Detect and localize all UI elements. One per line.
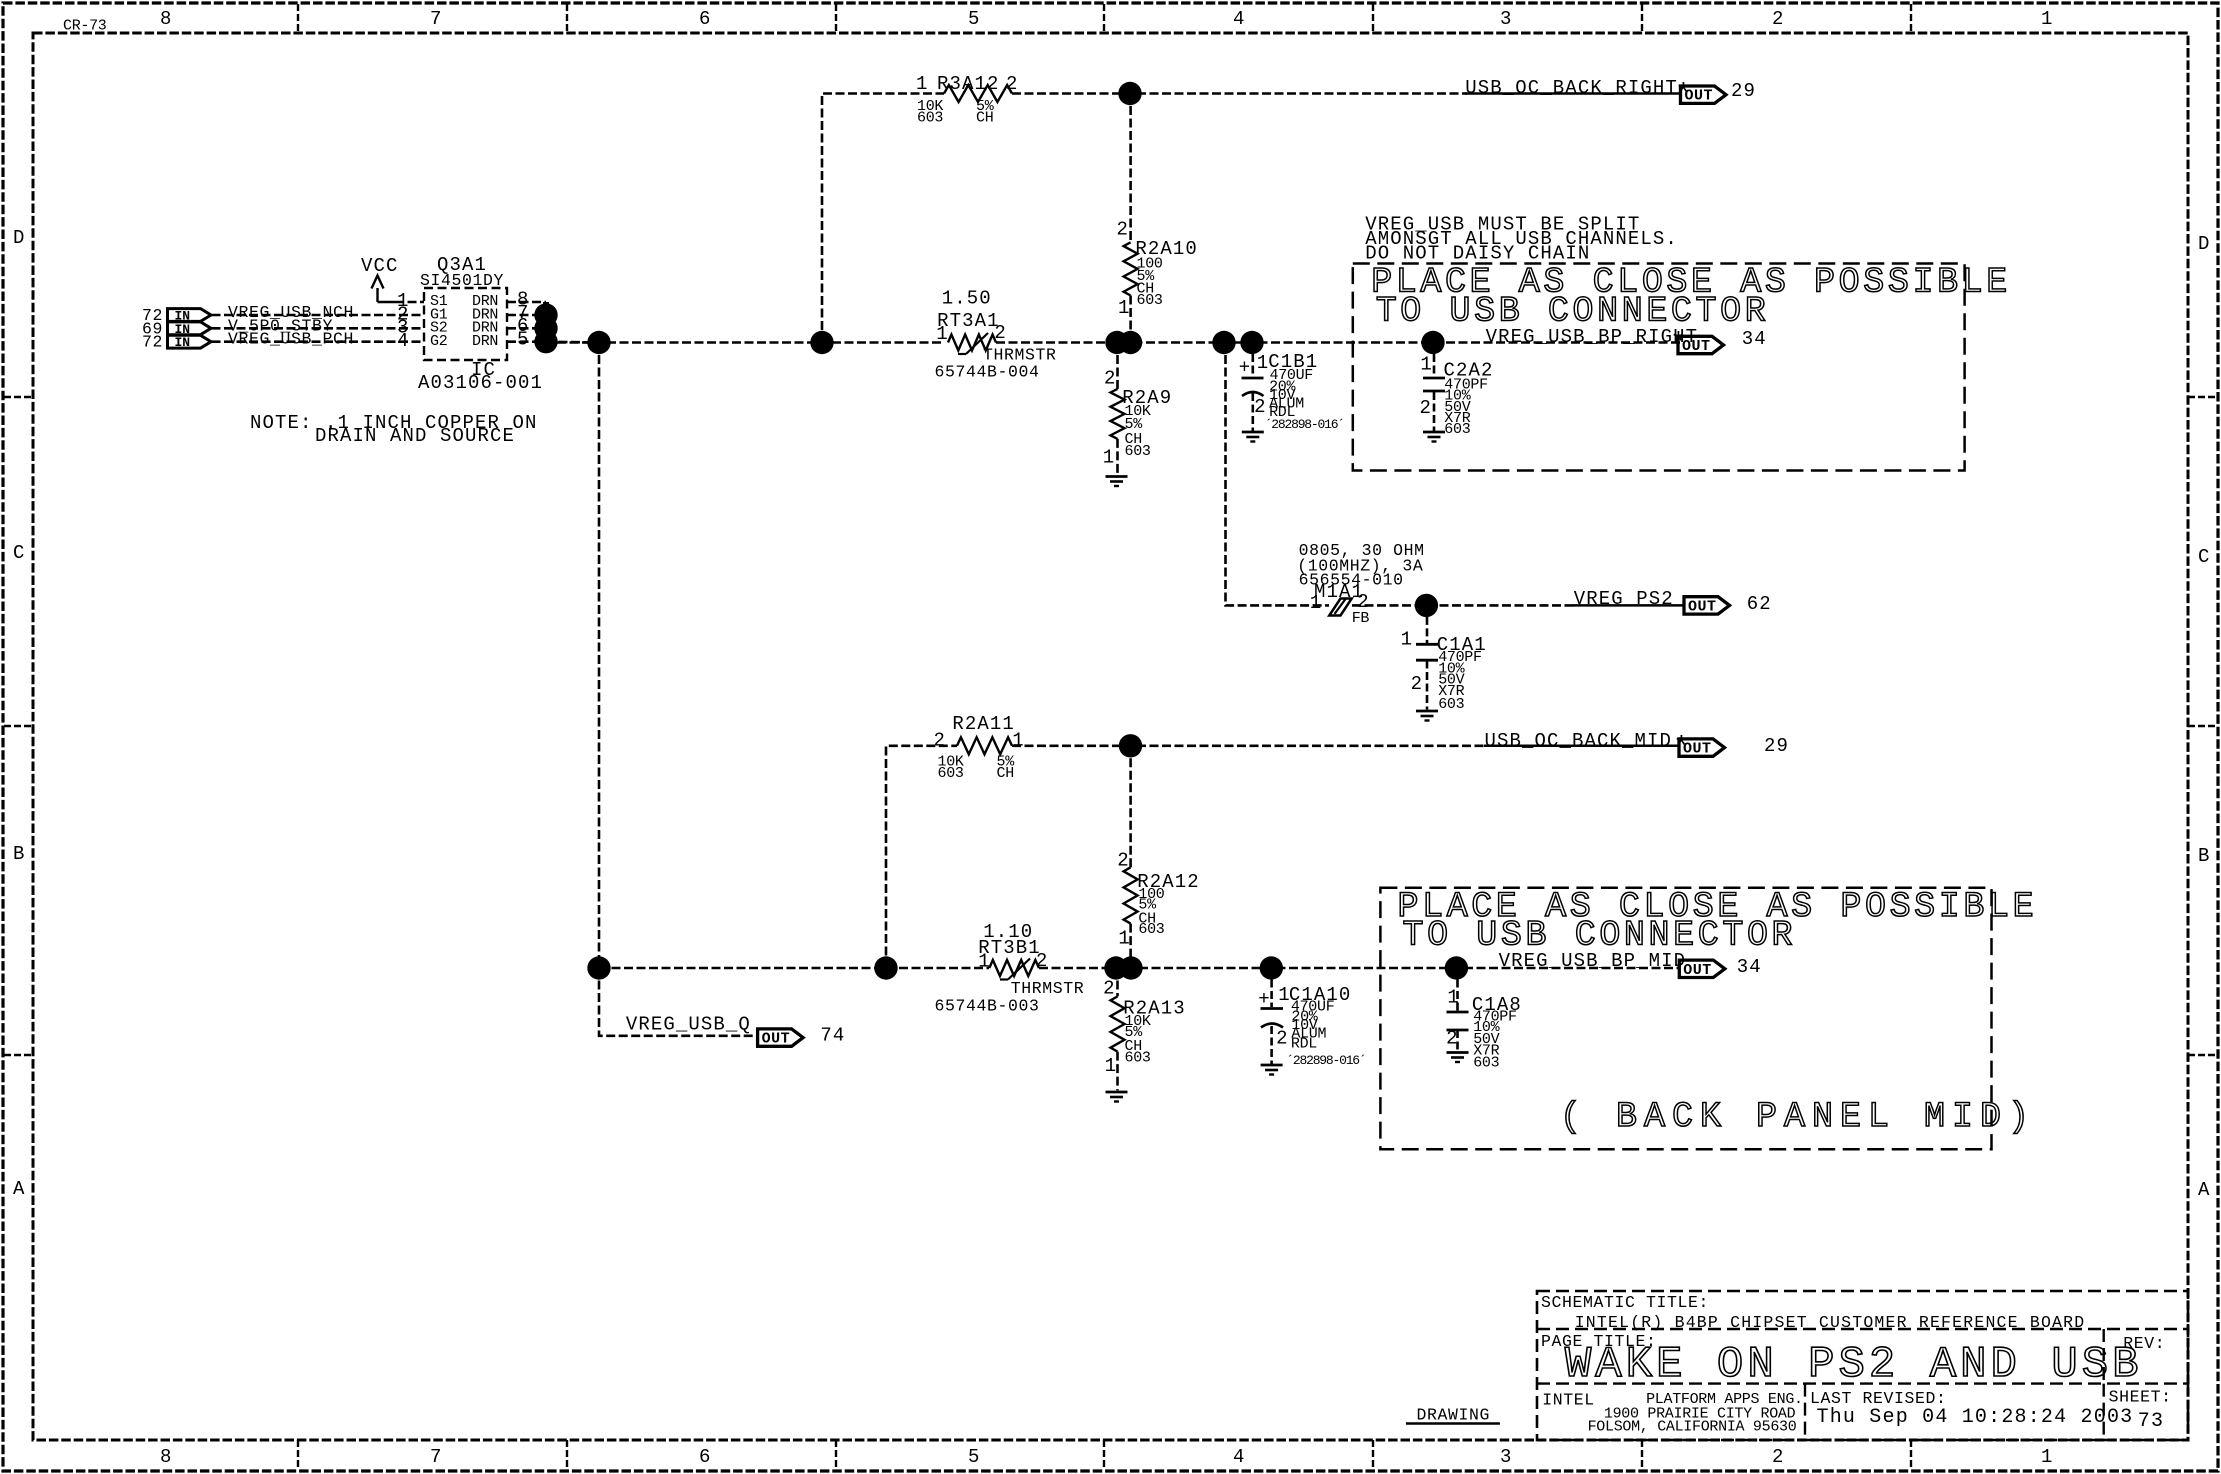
svg-text:65744B-004: 65744B-004 — [935, 363, 1040, 382]
node junction C1A10 at (1271.3,968) — [1260, 956, 1283, 979]
node junction R2A13 at (1116,968) — [1104, 956, 1127, 979]
node junction C1A8 at (1456.4,968) — [1445, 956, 1468, 979]
svg-text:1: 1 — [1447, 986, 1460, 1008]
svg-text:1: 1 — [1012, 730, 1025, 752]
ground below C1A8 — [1447, 1051, 1469, 1054]
wire C1A8 stubs — [1456, 968, 1459, 1011]
svg-text:WAKE ON PS2 AND USB: WAKE ON PS2 AND USB — [1565, 1340, 2143, 1390]
svg-text:2: 2 — [1772, 1446, 1785, 1468]
svg-text:1: 1 — [1105, 1055, 1118, 1077]
svg-text:603: 603 — [917, 110, 943, 127]
svg-text:+: + — [1258, 988, 1271, 1010]
svg-text:2: 2 — [1006, 73, 1019, 95]
svg-text:OUT: OUT — [762, 1031, 791, 1048]
svg-text:5: 5 — [517, 329, 530, 351]
ground below C1A1 — [1416, 710, 1438, 713]
svg-text:INTEL: INTEL — [1542, 1391, 1595, 1410]
svg-text:OUT: OUT — [1688, 598, 1717, 615]
wire R2A9 branch below bus — [1116, 343, 1119, 389]
port OUT VREG_USB_BP_RIGHT to page 34 — [1678, 336, 1724, 353]
node junction R2A11/R2A12 at (1130.5,745.8) — [1119, 734, 1142, 757]
svg-text:VREG_USB_PCH: VREG_USB_PCH — [228, 330, 354, 349]
svg-text:´282898-016´: ´282898-016´ — [1286, 1053, 1365, 1068]
svg-text:603: 603 — [1125, 443, 1151, 460]
node junction USB_OC_BACK_MID leg at (886,968) — [874, 956, 897, 979]
svg-text:SCHEMATIC TITLE:: SCHEMATIC TITLE: — [1541, 1293, 1709, 1312]
svg-text:G2: G2 — [430, 333, 447, 350]
svg-text:1: 1 — [2041, 8, 2054, 30]
svg-text:IN: IN — [175, 335, 191, 350]
svg-text:1.50: 1.50 — [942, 288, 992, 310]
port IN V_5P0_STBY from page 69 — [168, 322, 212, 335]
wire underline of VREG_PS2 label (solid) — [1573, 604, 1684, 607]
svg-text:4: 4 — [1233, 8, 1246, 30]
svg-text:29: 29 — [1731, 80, 1756, 102]
svg-text:2: 2 — [1772, 8, 1785, 30]
svg-text:4: 4 — [1233, 1446, 1246, 1468]
port IN VREG_USB_PCH from page 72 — [168, 335, 212, 348]
svg-text:A: A — [13, 1178, 26, 1200]
svg-text:1: 1 — [936, 323, 949, 345]
wire R2A10 branch: dot at R3A12 output down to main bus — [1129, 94, 1132, 243]
svg-text:62: 62 — [1747, 593, 1772, 615]
node junction VREG_PS2 / C1A1 at (1426.4,605.4) — [1415, 594, 1438, 617]
ground below C1A10 — [1261, 1064, 1283, 1067]
svg-text:VREG_USB_Q: VREG_USB_Q — [626, 1014, 751, 1036]
wire underline of USB_OC_BACK_MID label (solid) — [1484, 745, 1679, 748]
placement note box PLACE AS CLOSE AS POSSIBLE TO USB CONNECTOR (right) — [1353, 264, 1965, 471]
svg-text:CH: CH — [997, 765, 1014, 782]
svg-text:1: 1 — [1103, 447, 1116, 469]
wire Q3A1 pin1 to VCC — [395, 301, 424, 304]
svg-text:73: 73 — [2138, 1410, 2164, 1433]
svg-text:OUT: OUT — [1683, 741, 1712, 758]
svg-text:1: 1 — [2041, 1446, 2054, 1468]
svg-text:TO USB CONNECTOR: TO USB CONNECTOR — [1403, 916, 1797, 956]
svg-text:USB_OC_BACK_MID: USB_OC_BACK_MID — [1485, 730, 1673, 752]
svg-text:1: 1 — [1118, 297, 1131, 319]
svg-text:6: 6 — [699, 8, 712, 30]
svg-text:FOLSOM, CALIFORNIA 95630: FOLSOM, CALIFORNIA 95630 — [1588, 1419, 1797, 1436]
svg-text:3: 3 — [1500, 1446, 1513, 1468]
svg-text:OUT: OUT — [1685, 88, 1714, 105]
svg-text:34: 34 — [1737, 956, 1762, 978]
svg-text:603: 603 — [1137, 292, 1163, 309]
node junction R2A9 at (1117,342.5) — [1105, 331, 1128, 354]
svg-text:C: C — [2198, 546, 2211, 568]
node junction R2A10 at (1130.5,342.5) — [1119, 331, 1142, 354]
svg-text:7: 7 — [430, 8, 443, 30]
thermistor RT3A1 1.50 THRMSTR 65744B-004 — [936, 288, 1007, 355]
svg-text:A: A — [2198, 1179, 2211, 1201]
svg-text:SHEET:: SHEET: — [2109, 1388, 2172, 1407]
wire M1A1 branch: vertical x=1225.5 then VREG_PS2 horizontal — [1226, 343, 1330, 606]
ground below R2A9 — [1106, 475, 1128, 478]
svg-text:TO USB CONNECTOR: TO USB CONNECTOR — [1376, 291, 1770, 331]
node junction C2A2 at (1433,342.5) — [1421, 331, 1444, 354]
svg-text:( BACK PANEL MID): ( BACK PANEL MID) — [1560, 1097, 2036, 1137]
svg-text:1: 1 — [978, 951, 991, 973]
svg-text:CH: CH — [976, 110, 993, 127]
svg-text:8: 8 — [160, 1446, 173, 1468]
wire C2A2 stubs — [1433, 343, 1436, 378]
node junction trunk/bus at (599,342.5) — [587, 331, 610, 354]
capacitor C1A1 470PF 10% 50V X7R 603 — [1401, 629, 1487, 696]
resistor R2A9 10K 5% CH 603 — [1103, 368, 1173, 469]
svg-text:+: + — [1239, 356, 1252, 378]
svg-text:DRAWING: DRAWING — [1417, 1406, 1491, 1425]
wire USB_OC_BACK_RIGHT net: vertical x=822 and horizontal y=93.5 — [822, 94, 944, 343]
ground below C1B1 — [1242, 431, 1264, 434]
capacitor C1B1 470UF 20% 10V ALUM RDL polarized — [1239, 351, 1319, 418]
node junction R3A12 left leg at (822,342.5) — [810, 331, 833, 354]
svg-text:8: 8 — [160, 8, 173, 30]
svg-text:2: 2 — [1117, 850, 1130, 872]
node junction R2A12 at (1131,968) — [1119, 956, 1142, 979]
node junction C1B1 at (1252,342.5) — [1240, 331, 1263, 354]
placement note box PLACE AS CLOSE AS POSSIBLE TO USB CONNECTOR (mid) — [1380, 888, 1991, 1150]
ferrite bead M1A1 0805 30 OHM 656554-010 — [1297, 541, 1424, 627]
wire USB_OC_BACK_MID net: vertical x=886 and horizontal y=745.8 — [886, 746, 957, 968]
svg-text:2: 2 — [1276, 1028, 1289, 1050]
svg-text:6: 6 — [699, 1446, 712, 1468]
wire underline of USB_OC_BACK_RIGHT label (solid) — [1465, 92, 1681, 95]
ground below C2A2 — [1423, 431, 1445, 434]
svg-text:29: 29 — [1764, 735, 1789, 757]
svg-text:C: C — [13, 542, 26, 564]
svg-text:2: 2 — [994, 322, 1007, 344]
resistor R2A10 100 5% CH 603 — [1117, 219, 1198, 319]
ground below R2A13 — [1106, 1091, 1128, 1094]
svg-text:2: 2 — [1446, 1028, 1459, 1050]
wire Q3A1 right pins to bundle — [507, 301, 546, 304]
port IN VREG_USB_NCH from page 72 — [168, 309, 212, 322]
svg-text:603: 603 — [1473, 1055, 1499, 1072]
svg-text:1: 1 — [1401, 629, 1414, 651]
capacitor C2A2 470PF 10% 50V X7R 603 — [1420, 354, 1494, 419]
svg-text:2: 2 — [1411, 673, 1424, 695]
wire C1A10 stubs — [1270, 968, 1273, 1007]
resistor R2A13 10K 5% CH 603 — [1103, 977, 1186, 1077]
svg-text:1: 1 — [916, 73, 929, 95]
port OUT USB_OC_BACK_MID to page 29 — [1679, 739, 1725, 756]
svg-text:R3A12: R3A12 — [937, 73, 1000, 95]
svg-text:INTEL(R) B4BP CHIPSET CUSTOMER: INTEL(R) B4BP CHIPSET CUSTOMER REFERENCE… — [1575, 1313, 2086, 1332]
svg-text:5: 5 — [968, 8, 981, 30]
wire VREG_USB_Q elbow from trunk to OUT port — [599, 968, 758, 1036]
transistor Q3A1 SI4501DY dual MOSFET — [420, 254, 507, 360]
svg-text:603: 603 — [1444, 421, 1470, 438]
svg-text:DO NOT DAISY CHAIN: DO NOT DAISY CHAIN — [1365, 243, 1590, 265]
capacitor C1A8 470PF 10% 50V X7R 603 — [1446, 986, 1522, 1049]
svg-text:SI4501DY: SI4501DY — [420, 271, 504, 290]
capacitor C1A10 470UF 20% 10V ALUM RDL polarized — [1258, 984, 1351, 1050]
wire main VREG_USB_BP_RIGHT bus y=342.5 — [557, 341, 944, 344]
node junction R3A12/R2A10 at (1130,93.5) — [1118, 82, 1141, 105]
svg-text:65744B-003: 65744B-003 — [935, 996, 1040, 1015]
svg-text:3: 3 — [1500, 8, 1513, 30]
svg-text:D: D — [13, 227, 26, 249]
wire lower VREG_USB_BP_MID bus y=968 — [599, 967, 989, 970]
svg-text:CR-73: CR-73 — [63, 18, 107, 35]
svg-text:1: 1 — [1420, 354, 1433, 376]
svg-text:2: 2 — [1117, 219, 1130, 241]
wire C1A1 stubs — [1426, 605, 1429, 643]
resistor R2A11 10K 5% 603 CH — [934, 713, 1025, 754]
port OUT VREG_USB_Q to page 74 — [758, 1029, 804, 1046]
svg-text:2: 2 — [1420, 397, 1433, 419]
svg-text:USB_OC_BACK_RIGHT: USB_OC_BACK_RIGHT — [1465, 77, 1678, 99]
port OUT VREG_PS2 to page 62 — [1684, 597, 1730, 614]
svg-text:7: 7 — [430, 1446, 443, 1468]
svg-text:2: 2 — [1104, 368, 1117, 390]
svg-text:Thu Sep 04 10:28:24 2003: Thu Sep 04 10:28:24 2003 — [1817, 1406, 2134, 1429]
svg-text:2: 2 — [1254, 396, 1267, 418]
svg-text:A03106-001: A03106-001 — [418, 372, 543, 394]
svg-text:RDL: RDL — [1291, 1036, 1317, 1053]
svg-text:2: 2 — [1036, 950, 1049, 972]
svg-text:74: 74 — [820, 1024, 845, 1046]
resistor R3A12 10K 5% 603 CH — [916, 73, 1019, 102]
svg-text:2: 2 — [1103, 977, 1116, 999]
svg-text:OUT: OUT — [1683, 962, 1712, 979]
power symbol VCC — [361, 255, 399, 302]
svg-text:1: 1 — [1310, 592, 1323, 614]
svg-text:DRAIN AND SOURCE: DRAIN AND SOURCE — [315, 425, 515, 447]
svg-text:72: 72 — [142, 333, 163, 352]
svg-text:VREG_PS2: VREG_PS2 — [1574, 588, 1674, 610]
port OUT VREG_USB_BP_MID to page 34 — [1679, 960, 1725, 977]
svg-text:4: 4 — [397, 330, 410, 352]
wire C1B1 stubs — [1252, 343, 1255, 377]
svg-text:FB: FB — [1352, 610, 1370, 627]
port OUT USB_OC_BACK_RIGHT to page 29 — [1681, 86, 1727, 103]
wire R2A13 branch below lower bus — [1116, 968, 1119, 996]
svg-text:603: 603 — [1125, 1050, 1151, 1067]
svg-text:2: 2 — [934, 730, 947, 752]
svg-text:D: D — [2198, 233, 2211, 255]
svg-text:B: B — [13, 843, 26, 865]
svg-text:1: 1 — [1118, 928, 1131, 950]
svg-text:´282898-016´: ´282898-016´ — [1265, 417, 1344, 432]
svg-text:B: B — [2198, 845, 2211, 867]
svg-text:5: 5 — [968, 1446, 981, 1468]
wire R2A12 branch — [1129, 746, 1132, 868]
node junction trunk/lower bus at (599,968) — [587, 956, 610, 979]
svg-text:R2A11: R2A11 — [952, 713, 1015, 735]
svg-text:VCC: VCC — [361, 255, 399, 277]
thermistor RT3B1 1.10 THRMSTR 65744B-003 — [978, 921, 1048, 980]
svg-text:603: 603 — [938, 765, 964, 782]
svg-text:DRN: DRN — [472, 333, 498, 350]
svg-text:603: 603 — [1438, 696, 1464, 713]
title block frame — [1537, 1291, 2188, 1440]
svg-text:OUT: OUT — [1682, 338, 1711, 355]
svg-text:603: 603 — [1138, 921, 1164, 938]
node junction Q3A1 output bundle x=546 — [534, 303, 557, 326]
resistor R2A12 100 5% CH 603 — [1117, 850, 1200, 950]
wire left vertical trunk x=599 from bus to lower bus — [598, 343, 601, 969]
node junction M1A1 branch at (1224,342.5) — [1212, 331, 1235, 354]
